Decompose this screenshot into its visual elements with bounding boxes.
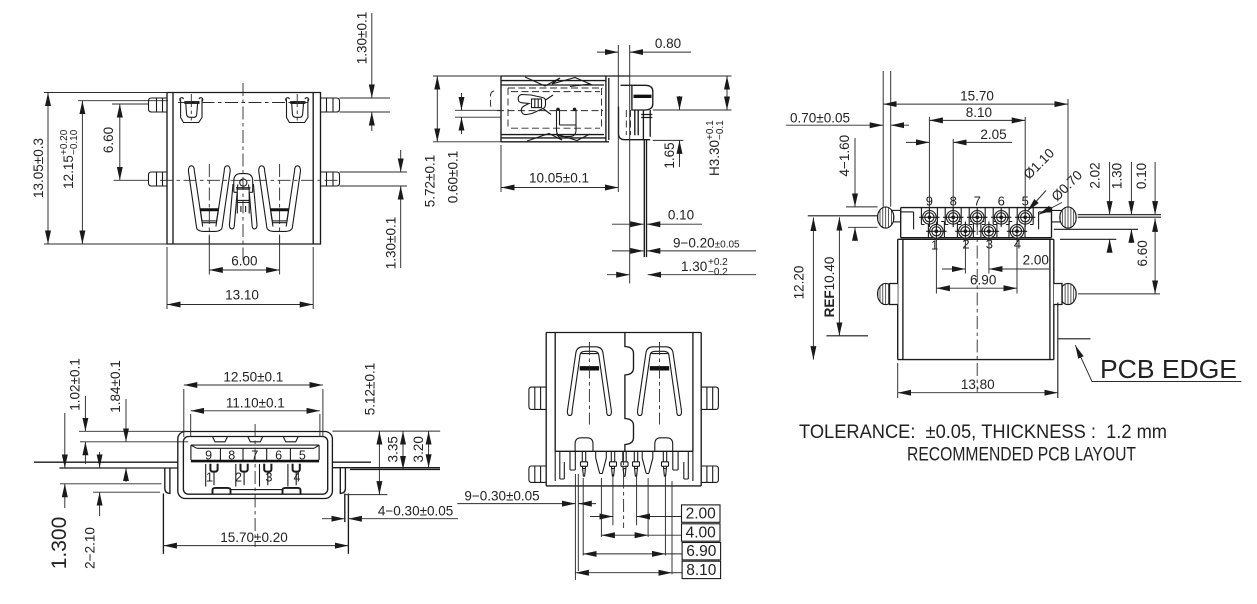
- svg-text:2.05: 2.05: [980, 127, 1006, 142]
- svg-text:1.65: 1.65: [662, 142, 677, 168]
- svg-text:−0.1: −0.1: [715, 120, 726, 140]
- svg-text:RECOMMENDED PCB LAYOUT: RECOMMENDED PCB LAYOUT: [907, 445, 1136, 466]
- svg-text:PCB EDGE: PCB EDGE: [1100, 354, 1237, 384]
- svg-text:1.84±0.1: 1.84±0.1: [108, 360, 123, 412]
- svg-text:2.00: 2.00: [686, 506, 717, 523]
- svg-text:1.30±0.1: 1.30±0.1: [355, 12, 370, 64]
- svg-text:0.60±0.1: 0.60±0.1: [446, 151, 461, 203]
- svg-text:6.90: 6.90: [686, 543, 717, 560]
- svg-text:−0.10: −0.10: [69, 129, 80, 155]
- svg-text:0.10: 0.10: [1134, 163, 1149, 189]
- svg-text:7: 7: [974, 193, 981, 208]
- svg-text:6.60: 6.60: [1135, 240, 1150, 266]
- svg-text:3.20: 3.20: [411, 436, 426, 462]
- svg-text:−0.2: −0.2: [708, 267, 728, 278]
- svg-text:9: 9: [205, 448, 212, 462]
- svg-text:15.70±0.20: 15.70±0.20: [220, 530, 287, 545]
- svg-text:5.72±0.1: 5.72±0.1: [423, 155, 438, 207]
- svg-text:13.80: 13.80: [961, 377, 995, 392]
- svg-text:8.10: 8.10: [686, 562, 717, 579]
- svg-text:0.70±0.05: 0.70±0.05: [790, 110, 850, 125]
- svg-text:6: 6: [275, 448, 282, 462]
- svg-text:8: 8: [228, 448, 235, 462]
- svg-text:1.300: 1.300: [48, 517, 71, 570]
- svg-text:1.30±0.1: 1.30±0.1: [384, 217, 399, 269]
- svg-text:10.05±0.1: 10.05±0.1: [529, 171, 589, 186]
- svg-text:5: 5: [1022, 193, 1029, 208]
- svg-text:0.10: 0.10: [668, 208, 694, 223]
- svg-text:1: 1: [206, 471, 213, 485]
- svg-text:12.20: 12.20: [792, 266, 807, 300]
- svg-text:12.50±0.1: 12.50±0.1: [223, 370, 283, 385]
- svg-text:8.10: 8.10: [966, 105, 992, 120]
- svg-text:6.90: 6.90: [970, 273, 996, 288]
- svg-text:REF10.40: REF10.40: [822, 257, 837, 318]
- svg-text:12.15: 12.15: [61, 155, 76, 189]
- svg-text:8: 8: [950, 193, 957, 208]
- svg-text:6.00: 6.00: [231, 254, 257, 269]
- svg-text:9: 9: [926, 193, 933, 208]
- svg-text:9−0.30±0.05: 9−0.30±0.05: [464, 489, 539, 504]
- svg-text:1.02±0.1: 1.02±0.1: [68, 358, 83, 410]
- svg-text:4−1.60: 4−1.60: [837, 135, 852, 177]
- svg-text:0.80: 0.80: [655, 36, 681, 51]
- svg-text:TOLERANCE: ±0.05, THICKNESS :: TOLERANCE: ±0.05, THICKNESS : 1.2 mm: [799, 422, 1167, 443]
- svg-text:1.30: 1.30: [681, 259, 707, 274]
- svg-text:1.30: 1.30: [1110, 163, 1125, 189]
- svg-text:4.00: 4.00: [686, 525, 717, 542]
- svg-text:13.10: 13.10: [225, 288, 259, 303]
- svg-text:H3.30: H3.30: [707, 140, 722, 176]
- svg-text:15.70: 15.70: [960, 89, 994, 104]
- svg-text:6: 6: [998, 193, 1005, 208]
- svg-text:2.02: 2.02: [1088, 162, 1103, 188]
- svg-text:6.60: 6.60: [101, 127, 116, 153]
- svg-text:11.10±0.1: 11.10±0.1: [226, 396, 285, 411]
- svg-text:5: 5: [299, 448, 306, 462]
- svg-text:2.00: 2.00: [1023, 252, 1049, 267]
- svg-text:5.12±0.1: 5.12±0.1: [363, 363, 378, 415]
- svg-text:3: 3: [266, 471, 273, 485]
- svg-text:2−2.10: 2−2.10: [83, 527, 98, 569]
- svg-text:13.05±0.3: 13.05±0.3: [31, 138, 46, 198]
- svg-text:4−0.30±0.05: 4−0.30±0.05: [378, 504, 453, 519]
- svg-text:3.35: 3.35: [386, 436, 401, 462]
